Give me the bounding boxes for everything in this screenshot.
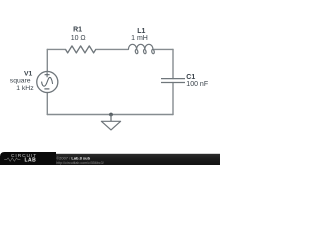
- svg-text:1 kHz: 1 kHz: [16, 85, 34, 92]
- svg-text:square: square: [10, 77, 31, 84]
- svg-text:R1: R1: [73, 26, 82, 33]
- svg-text:http://circuitlab.com/c/556bc3: http://circuitlab.com/c/556bc3/: [56, 161, 104, 165]
- svg-text:100 nF: 100 nF: [186, 81, 208, 88]
- svg-text:©2007 / Lab.8 sub: ©2007 / Lab.8 sub: [56, 155, 90, 160]
- svg-text:1 mH: 1 mH: [131, 35, 148, 42]
- svg-text:L1: L1: [137, 28, 145, 35]
- svg-text:LAB: LAB: [25, 157, 37, 163]
- svg-text:10 Ω: 10 Ω: [71, 35, 86, 42]
